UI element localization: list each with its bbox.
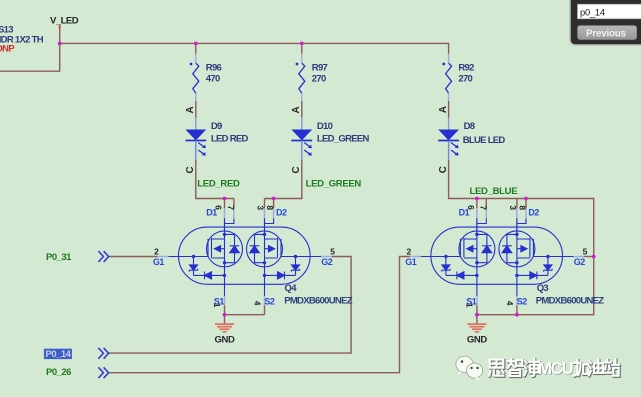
LED D9 (red) <box>185 117 206 159</box>
svg-text:A: A <box>185 106 196 113</box>
port chevron P0_14 <box>98 348 108 359</box>
svg-text:DNP: DNP <box>0 44 15 55</box>
power symbol V_LED <box>59 25 61 29</box>
junction node 5 <box>272 197 276 201</box>
svg-text:P0_31: P0_31 <box>46 252 72 263</box>
junction node 4 <box>223 197 227 201</box>
resistor R96 470 <box>190 54 199 101</box>
svg-text:p0_14: p0_14 <box>580 7 605 17</box>
resistor R92 270 <box>442 54 451 101</box>
junction node 1 <box>58 42 62 46</box>
wire: D10 cathode to Q4 pins 3/8 (net LED_GREEN) <box>265 160 302 199</box>
svg-text:D9: D9 <box>211 121 222 132</box>
wire: Q4 S1-S2 link <box>225 314 265 316</box>
junction node 2 <box>194 42 198 46</box>
svg-text:LED_BLUE: LED_BLUE <box>470 186 518 197</box>
wire: R96 to D9 <box>195 101 197 118</box>
ground below Q3 S1 <box>467 315 487 346</box>
svg-text:270: 270 <box>312 74 326 85</box>
svg-text:A: A <box>438 106 449 113</box>
svg-text:470: 470 <box>206 74 220 85</box>
svg-text:LED_GREEN: LED_GREEN <box>317 133 370 144</box>
wire: V_LED rail across top <box>60 43 449 53</box>
wire: rail stubs down to R96 R97 <box>196 43 302 53</box>
svg-text:D8: D8 <box>464 121 475 132</box>
svg-text:C: C <box>185 166 196 173</box>
LED D10 (green) <box>291 117 312 159</box>
junction node 11 <box>515 313 519 317</box>
svg-text:R97: R97 <box>312 63 328 74</box>
junction node 9 <box>223 313 227 317</box>
watermark text 恩智浦MCU加油站 <box>489 359 619 379</box>
svg-text:PMDXB600UNEZ: PMDXB600UNEZ <box>536 296 605 307</box>
wire: D8 cathode to Q3 pins 6/7/3/8 and right drop (net LED_BLUE) <box>449 160 594 315</box>
resistor R97 270 <box>296 54 305 101</box>
wire: P0_26 port to Q3 G1 <box>109 257 410 373</box>
svg-text:PMDXB600UNEZ: PMDXB600UNEZ <box>284 296 353 307</box>
dual mosfet Q3 PMDXB600UNEZ <box>405 199 587 315</box>
svg-text:Previous: Previous <box>586 28 627 39</box>
svg-text:C: C <box>291 166 302 173</box>
search popup panel <box>570 0 641 45</box>
svg-text:LED RED: LED RED <box>211 133 249 144</box>
junction node 8 <box>592 255 596 259</box>
port chevron P0_31 <box>98 251 108 262</box>
port chevron P0_26 <box>98 367 108 378</box>
wire: P0_31 port to Q4 G1 <box>109 256 157 258</box>
junction node 6 <box>475 197 479 201</box>
svg-text:V_LED: V_LED <box>50 15 79 26</box>
svg-text:MCU: MCU <box>538 359 573 378</box>
wire: Q4 G2 to P0_14 port <box>109 257 351 354</box>
svg-text:LED_GREEN: LED_GREEN <box>306 179 362 190</box>
wire: Q3 G2 stub to LED_BLUE drop <box>584 256 594 258</box>
svg-text:A: A <box>291 106 302 113</box>
svg-text:BLUE LED: BLUE LED <box>463 135 506 146</box>
svg-text:R92: R92 <box>458 63 474 74</box>
net label P0_14 (search highlighted) <box>44 349 72 359</box>
svg-text:D10: D10 <box>317 121 333 132</box>
svg-text:C: C <box>438 166 449 173</box>
watermark wechat icon <box>456 356 483 380</box>
wire: D9 cathode to Q4 pins 6/7 (net LED_RED) <box>196 160 234 199</box>
svg-text:P0_14: P0_14 <box>46 349 72 360</box>
svg-text:P0_26: P0_26 <box>46 367 71 378</box>
svg-text:LED_RED: LED_RED <box>197 178 240 189</box>
svg-text:270: 270 <box>458 74 472 85</box>
LED D8 (blue) <box>438 117 459 159</box>
wire: R92 to D8 <box>448 101 450 118</box>
svg-text:R96: R96 <box>206 63 222 74</box>
junction node 3 <box>300 42 304 46</box>
dual mosfet Q4 PMDXB600UNEZ <box>153 199 335 315</box>
svg-text:Q3: Q3 <box>537 283 549 294</box>
ground below Q4 S1 <box>215 315 235 346</box>
wire: connector S13 pin2 to V_LED node <box>0 43 60 71</box>
junction node 7 <box>524 197 528 201</box>
junction node 10 <box>475 313 479 317</box>
wire: R97 to D10 <box>301 101 303 118</box>
svg-text:Q4: Q4 <box>285 283 298 294</box>
